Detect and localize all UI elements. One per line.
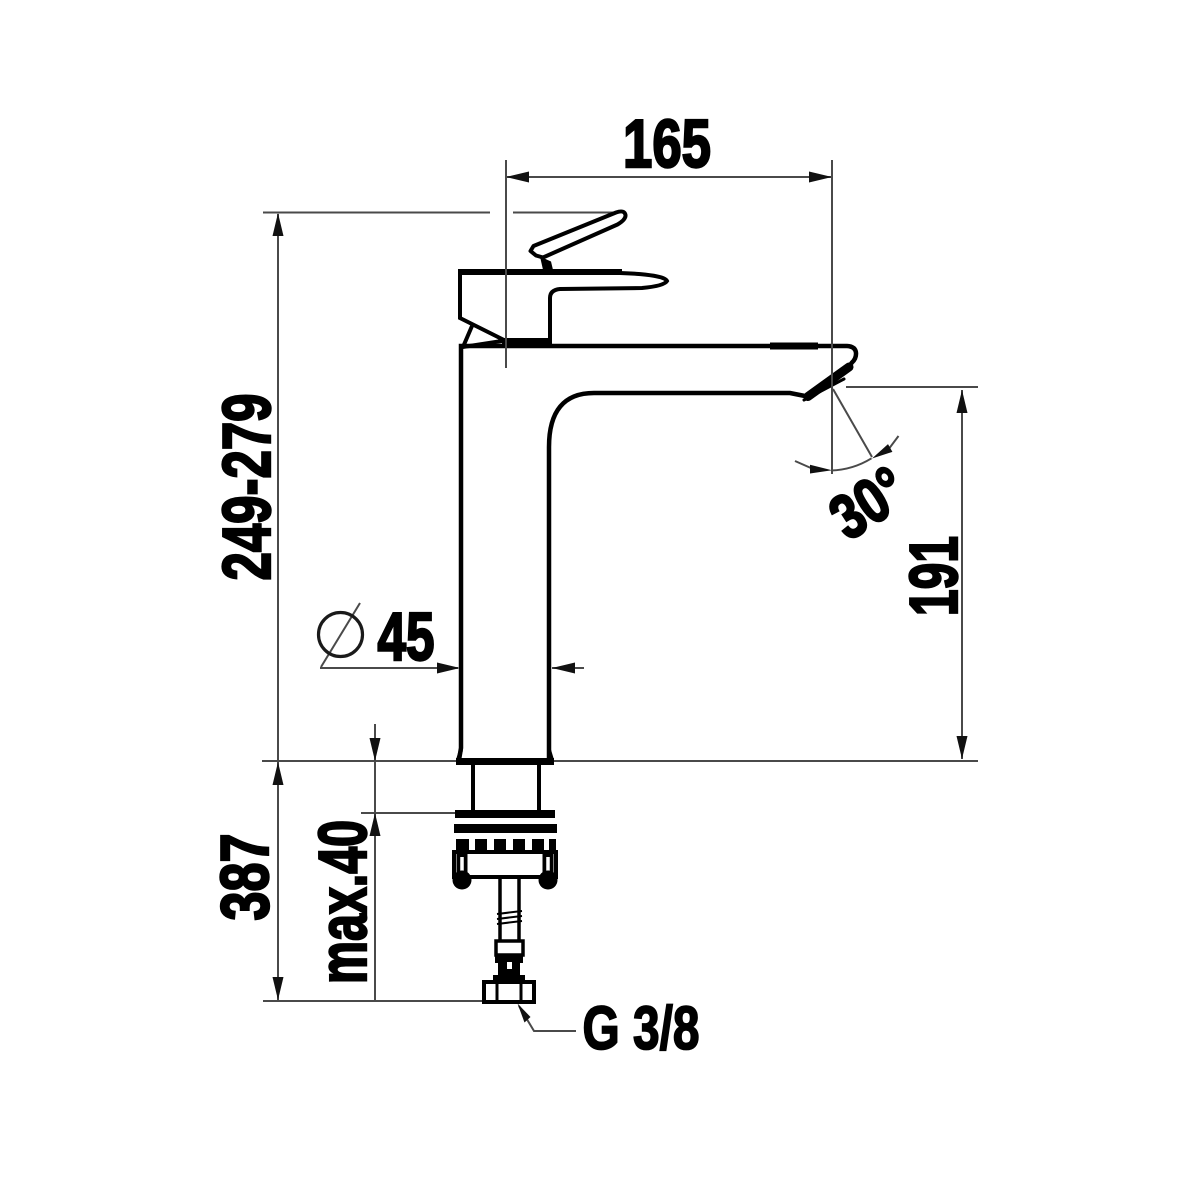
svg-text:191: 191: [896, 536, 972, 616]
svg-text:165: 165: [623, 106, 711, 182]
svg-text:G 3/8: G 3/8: [583, 994, 700, 1062]
svg-text:249-279: 249-279: [209, 394, 285, 581]
svg-text:387: 387: [207, 834, 283, 921]
svg-text:max.40: max.40: [305, 820, 381, 984]
svg-text:45: 45: [378, 599, 435, 675]
